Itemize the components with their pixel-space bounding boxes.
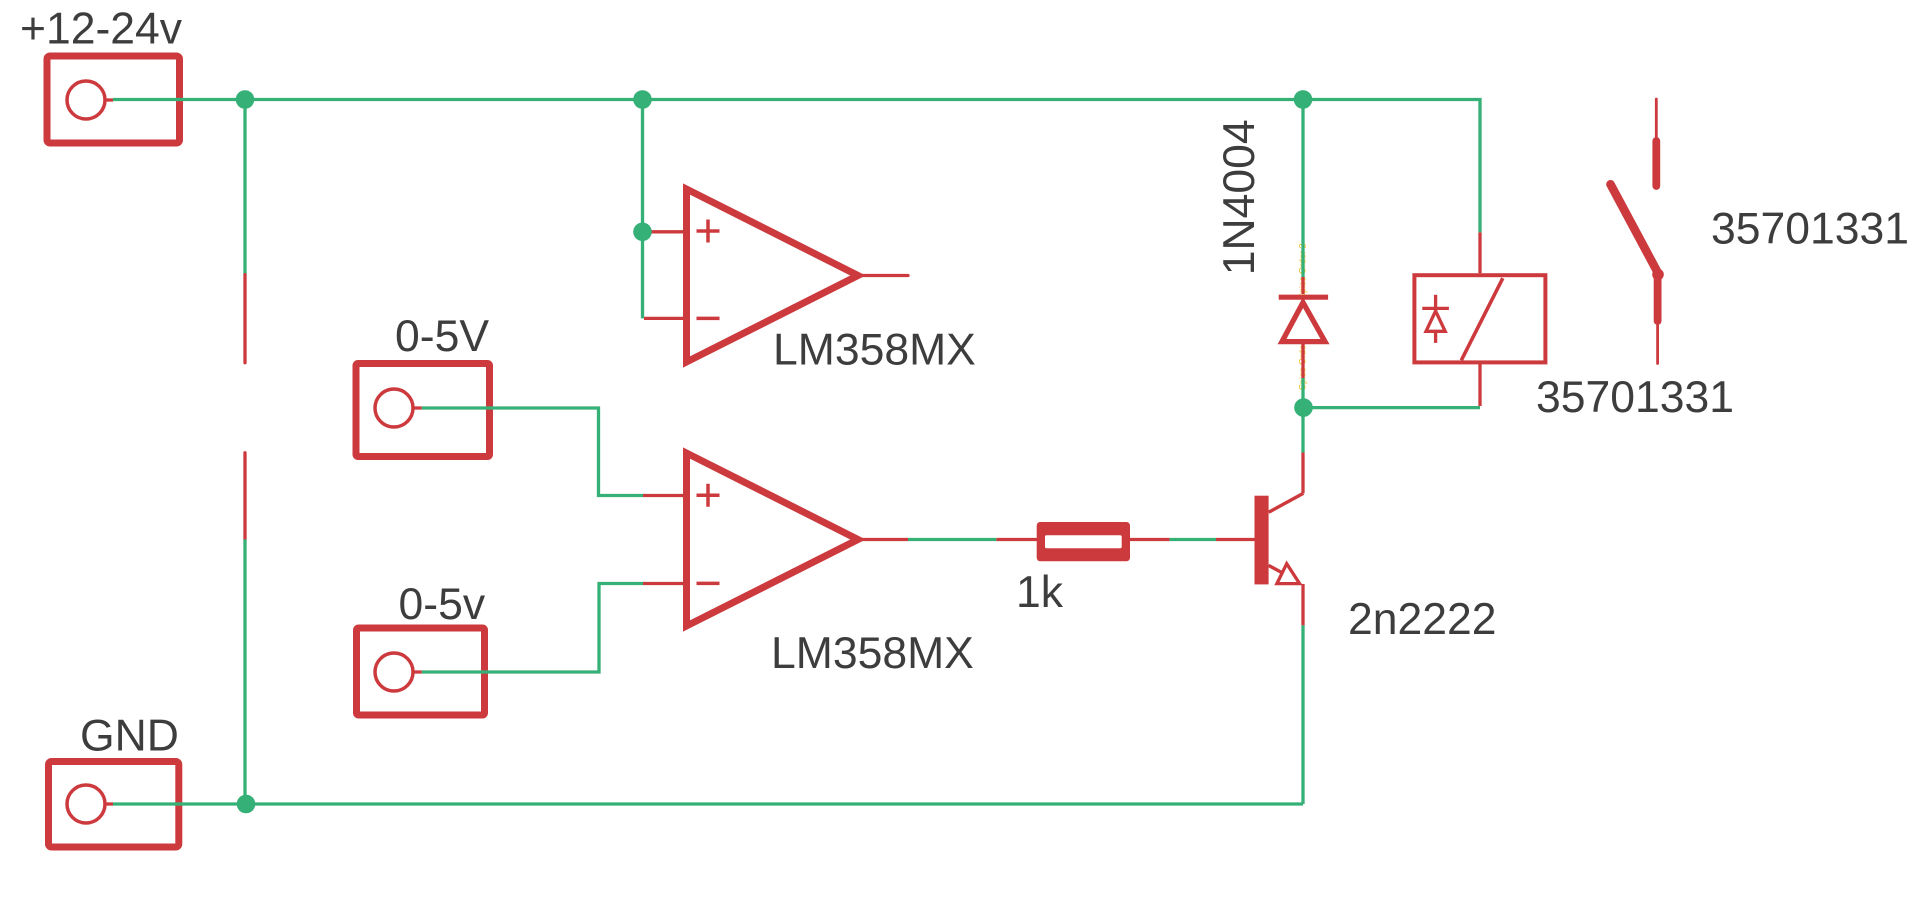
switch S1 bottom pin thin (1656, 325, 1659, 364)
svg-text:1N4004: 1N4004 (1215, 119, 1264, 275)
wire: diode top (green) (1301, 101, 1304, 277)
svg-text:0-5v: 0-5v (399, 580, 486, 629)
op-amp U1 triangle (687, 189, 859, 362)
switch S1 blade (1611, 184, 1659, 273)
svg-text:0-5V: 0-5V (395, 312, 489, 361)
op-amp U2 triangle (687, 453, 859, 626)
connector J3 0-5V box (356, 364, 490, 457)
svg-text:35701331: 35701331 (1711, 205, 1909, 254)
connector J2 pin circle (67, 785, 105, 823)
op-amp U1 plus sign (697, 220, 720, 243)
connector J4 0-5v box (357, 628, 485, 715)
wire: U2 plus input stub (red) (643, 494, 686, 497)
wire: collector pin (red) (1301, 453, 1304, 494)
wire: collector to node (green) (1301, 408, 1304, 453)
wire: +12-24v top rail to relay drop (113, 100, 1480, 233)
node: junction top rail / diode (1294, 90, 1313, 109)
wire: 0-5v pin stub (red) (413, 670, 422, 673)
diode D1 cathode bar (1279, 295, 1328, 300)
connector J1 pin circle (67, 81, 105, 119)
wire: 0-5V pin stub (red) (413, 406, 422, 409)
relay K1 inner diode bar (1422, 307, 1449, 310)
relay K1 body (1414, 275, 1545, 362)
connector J4 pin circle (375, 653, 413, 691)
wire: resistor left pin (red) (996, 538, 1037, 541)
wire: emitter to bottom rail (green) (1301, 625, 1304, 804)
wire: 0-5V to U2 plus (green) (422, 408, 643, 496)
node: junction top rail / branch 245 (236, 90, 255, 109)
wire: diode anode to node (green) (1301, 378, 1304, 400)
wire: emitter pin (red) (1301, 584, 1304, 625)
transistor Q1 collector lead (1269, 493, 1304, 512)
wire: diode cathode pin (red) (1301, 277, 1304, 294)
relay K1 inner diode stem (1434, 295, 1437, 343)
relay K1 inner diode triangle (1426, 311, 1445, 331)
node: junction U1 plus input (633, 223, 652, 242)
svg-text:1k: 1k (1016, 568, 1064, 617)
wire: U2 output stub (red) (862, 538, 908, 541)
wire: U1 output stub (red) (861, 274, 908, 277)
transistor Q1 base bar (1255, 496, 1269, 585)
wire: resistor right pin (red) (1129, 538, 1169, 541)
connector J1 +12-24v box (47, 56, 180, 143)
wire: 0-5v to U2 minus (green) (422, 584, 643, 673)
wire: U1 plus input stub (red) (643, 230, 686, 233)
node: junction top rail / U1 plus branch (633, 90, 652, 109)
resistor R1 1k body (1037, 522, 1130, 561)
relay K1 slash (1461, 278, 1503, 360)
wire: red stub from GND pin (105, 802, 114, 805)
wire: relay top pin (red) (1478, 232, 1481, 273)
wire: branch at x=245 to GND rail (green) (243, 539, 246, 804)
wire: U1 minus input stub (red) (644, 317, 686, 320)
diode D1 triangle (1282, 303, 1325, 342)
svg-text:LM358MX: LM358MX (771, 629, 974, 678)
switch S1 bottom pin thick (1654, 277, 1662, 321)
wire: transistor base pin (red) (1216, 538, 1255, 541)
wire: node to relay bottom (green) (1303, 406, 1480, 409)
op-amp U2 minus sign (697, 582, 720, 586)
wire: op-amp U1 plus branch (green) (641, 100, 644, 232)
wire: to transistor base (green) (1170, 538, 1216, 541)
wire: op-amp U1 minus branch (green) (641, 232, 644, 319)
connector J2 GND box (49, 762, 179, 848)
op-amp U1 minus sign (697, 317, 720, 321)
wire: red stub from +12-24v pin (105, 98, 114, 101)
svg-text:LM358MX: LM358MX (773, 326, 976, 375)
switch S1 top pin thin (1655, 99, 1658, 140)
transistor Q1 emitter lead (1269, 565, 1290, 577)
svg-text:2n2222: 2n2222 (1348, 595, 1497, 644)
wire: dangling red end (upper) (243, 275, 246, 363)
svg-text:GND: GND (80, 712, 179, 761)
wire: relay bottom pin (red) (1478, 364, 1481, 406)
transistor Q1 emitter arrow (1277, 564, 1300, 584)
connector J3 pin circle (375, 389, 413, 427)
wire: U2 minus input stub (red) (643, 582, 686, 585)
wire: GND bottom rail (113, 802, 1303, 805)
svg-text:35701331: 35701331 (1536, 373, 1734, 422)
wire: U2 output to resistor (green) (908, 538, 996, 541)
op-amp U2 plus sign (697, 484, 720, 507)
switch S1 top pin thick (1652, 141, 1660, 186)
wire: diode anode pin (red) (1301, 343, 1304, 378)
wire: dangling red end (lower) (243, 453, 246, 540)
node: junction GND rail (237, 795, 256, 814)
node: junction diode/relay/collector (1294, 398, 1313, 417)
svg-text:+12-24v: +12-24v (20, 5, 183, 54)
switch S1 pivot dot (1652, 269, 1664, 281)
wire: branch at x=245 down from top rail (green) (243, 100, 246, 275)
